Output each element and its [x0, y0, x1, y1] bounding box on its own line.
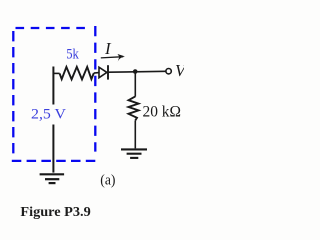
wire: diode cathode to output terminal: [109, 70, 166, 73]
resistor 20 kOhm zigzag: [129, 96, 139, 120]
svg-text:(a): (a): [100, 172, 115, 188]
current arrow: [101, 57, 123, 58]
wire: resistor to diode anode: [94, 72, 99, 75]
wire: left vertical upper segment (source lead): [52, 67, 54, 105]
node junction dot: [133, 69, 138, 74]
ground (left) bar 3: [49, 182, 56, 184]
wire: top horizontal from corner to resistor R1: [53, 72, 60, 74]
svg-text:5k: 5k: [66, 46, 79, 62]
wire: 20k resistor to ground: [134, 120, 136, 148]
svg-text:2,5 V: 2,5 V: [31, 107, 66, 123]
ground (left) bar 2: [45, 178, 59, 180]
resistor 5k zigzag: [60, 67, 94, 80]
svg-text:20 kΩ: 20 kΩ: [143, 103, 182, 120]
svg-text:V: V: [175, 61, 184, 80]
dashed Thevenin box right edge: [94, 26, 96, 152]
ground (right) bar 2: [127, 153, 142, 155]
ground (right) bar 1: [121, 148, 147, 150]
dashed Thevenin box bottom edge: [12, 160, 96, 162]
svg-text:Figure P3.9: Figure P3.9: [20, 204, 90, 219]
diode D1 triangle: [99, 67, 107, 78]
output terminal circle: [166, 69, 171, 74]
wire: left vertical lower segment through box to ground: [52, 125, 54, 173]
ground (left) bar 1: [40, 173, 65, 175]
dashed Thevenin box top edge: [16, 27, 88, 29]
ground (right) bar 3: [130, 157, 138, 159]
dashed Thevenin box left edge: [12, 31, 14, 155]
wire: node to 20k resistor: [134, 72, 136, 97]
diode D1 cathode bar: [107, 65, 109, 79]
